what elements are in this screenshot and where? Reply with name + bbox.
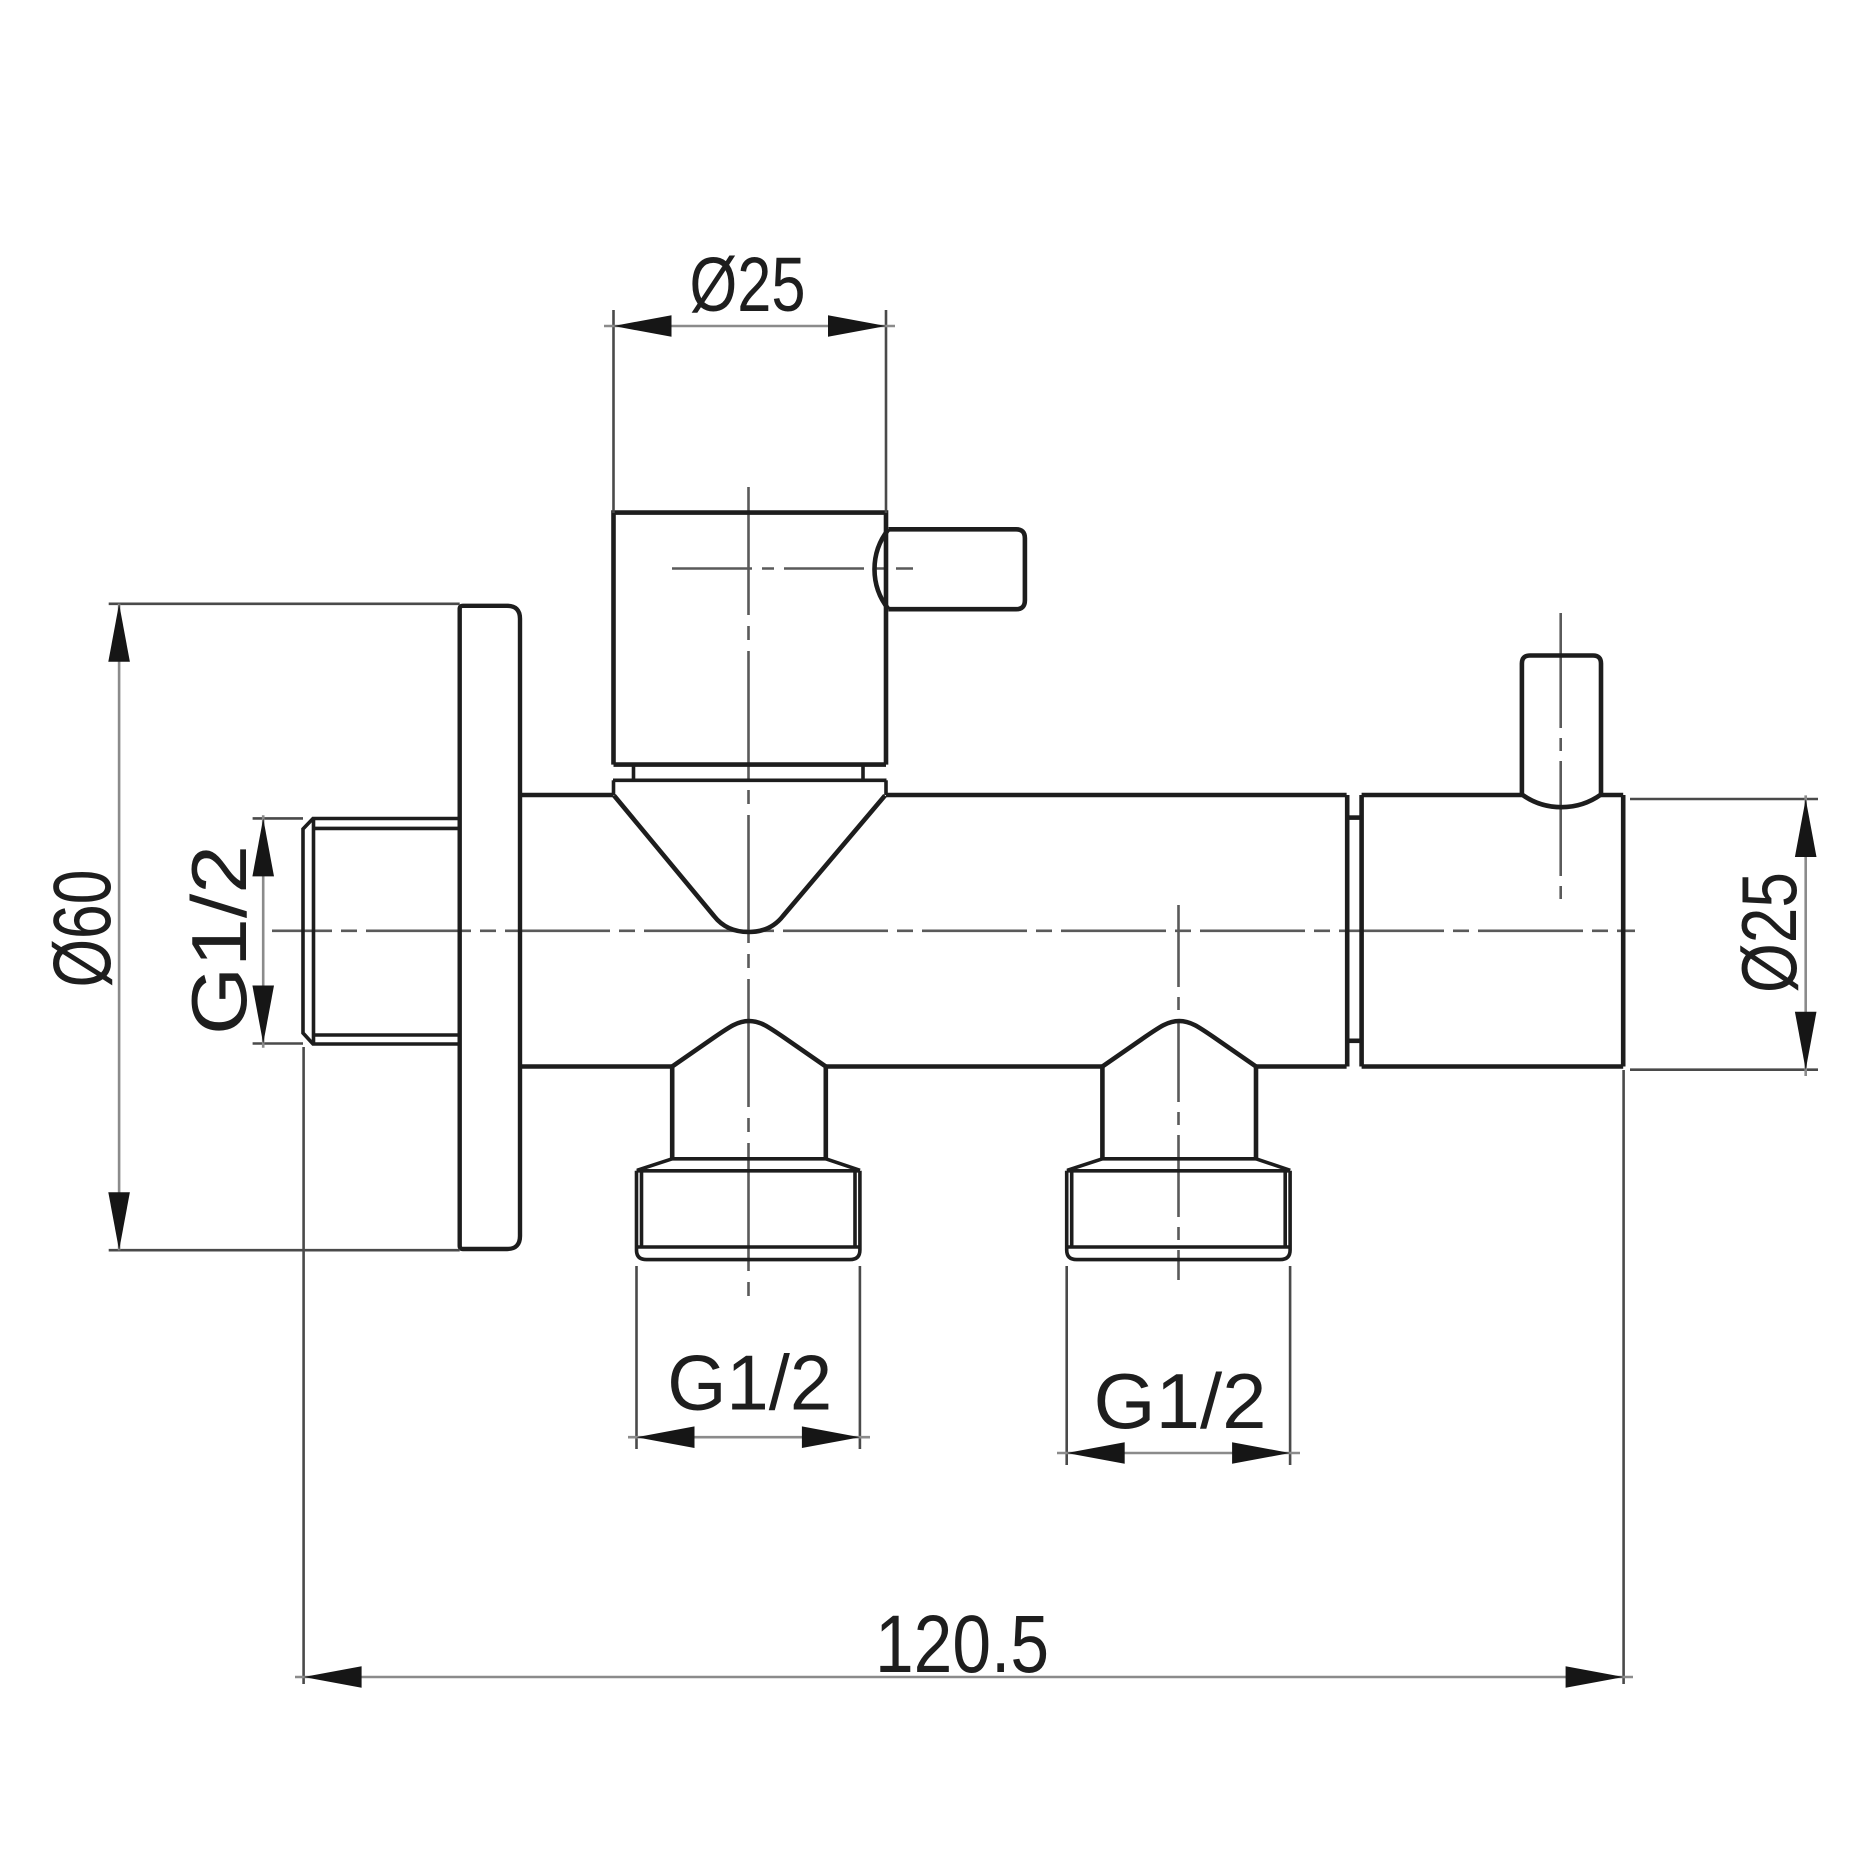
dimension Ø60 extension lines bbox=[109, 604, 460, 1250]
dimension Ø25 top arrow right bbox=[828, 315, 886, 337]
dimension G1/2 outlet 2 arrow right bbox=[1232, 1442, 1290, 1464]
right knob bbox=[1522, 656, 1601, 808]
outlet 1 thread bbox=[637, 1159, 861, 1260]
svg-text:G1/2: G1/2 bbox=[1094, 1357, 1267, 1445]
main body bottom edge bbox=[520, 1064, 1347, 1069]
dimension Ø25 right extension lines bbox=[1630, 799, 1818, 1070]
outlet 1 dome bbox=[672, 1021, 826, 1067]
svg-text:120.5: 120.5 bbox=[875, 1599, 1049, 1690]
flange plate bbox=[460, 606, 520, 1249]
handle collar bbox=[613, 765, 887, 795]
dimension Ø25 right arrow bottom bbox=[1795, 1012, 1817, 1070]
dimension 120.5 extension lines bbox=[304, 1047, 1624, 1684]
dimension 120.5 arrow right bbox=[1566, 1666, 1624, 1688]
centerline horizontal main axis bbox=[272, 929, 1635, 932]
centerline vertical outlet 2 axis bbox=[1177, 905, 1180, 1280]
dimension 120.5 line bbox=[295, 1676, 1633, 1679]
main body top edge bbox=[520, 793, 1347, 798]
centerline horizontal handle side knob axis bbox=[672, 567, 913, 570]
dimension Ø25 right line bbox=[1804, 795, 1807, 1076]
dimension G1/2 outlet 2 arrow left bbox=[1067, 1442, 1125, 1464]
dimension G1/2 outlet 2 extension lines bbox=[1067, 1266, 1290, 1465]
dimension Ø60 arrow bottom bbox=[108, 1192, 130, 1250]
outlet 1 neck bbox=[672, 1067, 826, 1160]
left thread connector bbox=[303, 819, 460, 1045]
dimension G1/2 outlet 1 extension lines bbox=[637, 1266, 860, 1449]
svg-text:Ø25: Ø25 bbox=[1725, 872, 1813, 993]
dimension G1/2 left arrow bottom bbox=[252, 986, 274, 1044]
handle side knob bbox=[874, 529, 1024, 609]
svg-text:G1/2: G1/2 bbox=[667, 1339, 832, 1427]
svg-text:G1/2: G1/2 bbox=[175, 845, 263, 1035]
handle cylinder bbox=[614, 513, 887, 765]
svg-text:Ø25: Ø25 bbox=[690, 242, 806, 328]
dimension Ø25 top line bbox=[604, 325, 895, 328]
dimension G1/2 outlet 1 arrow left bbox=[637, 1426, 695, 1448]
outlet 2 thread bbox=[1067, 1159, 1291, 1260]
funnel under handle bbox=[614, 796, 885, 933]
dimension G1/2 outlet 2 line bbox=[1057, 1452, 1300, 1455]
end cap bbox=[1362, 795, 1624, 1067]
dimension G1/2 left line bbox=[262, 815, 265, 1048]
centerline vertical right knob axis bbox=[1559, 613, 1562, 906]
dimension Ø60 arrow top bbox=[108, 604, 130, 662]
dimension Ø60 line bbox=[118, 604, 121, 1250]
dimension Ø25 top extension lines bbox=[614, 310, 887, 513]
dimension 120.5 arrow left bbox=[304, 1666, 362, 1688]
dimension G1/2 outlet 1 arrow right bbox=[802, 1426, 860, 1448]
svg-text:Ø60: Ø60 bbox=[37, 870, 128, 988]
dimension G1/2 left arrow top bbox=[252, 818, 274, 876]
outlet 2 dome bbox=[1102, 1021, 1256, 1067]
dimension G1/2 left extension ticks bbox=[253, 818, 303, 1043]
outlet 2 neck bbox=[1102, 1067, 1256, 1160]
dimension Ø25 top arrow left bbox=[614, 315, 672, 337]
centerline vertical handle and outlet 1 axis bbox=[747, 487, 750, 1307]
dimension Ø25 right arrow top bbox=[1795, 799, 1817, 857]
body cap joint bbox=[1347, 795, 1361, 1067]
dimension G1/2 outlet 1 line bbox=[628, 1436, 870, 1439]
